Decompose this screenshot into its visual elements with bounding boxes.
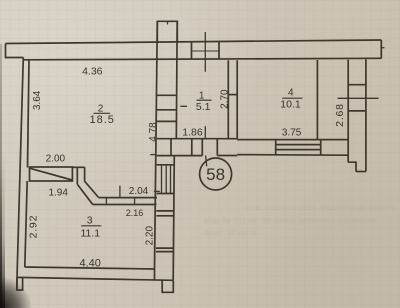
svg-text:2.20: 2.20 <box>145 226 156 246</box>
svg-text:4.78: 4.78 <box>148 122 159 142</box>
svg-text:4: 4 <box>288 88 294 99</box>
svg-text:4.40: 4.40 <box>79 258 100 270</box>
svg-text:2.16: 2.16 <box>126 208 144 218</box>
svg-text:2.00: 2.00 <box>46 153 66 164</box>
svg-text:3.64: 3.64 <box>32 90 43 110</box>
svg-text:3: 3 <box>87 215 93 227</box>
svg-text:5.1: 5.1 <box>196 101 211 113</box>
svg-text:3.75: 3.75 <box>282 128 302 139</box>
svg-text:2.70: 2.70 <box>219 89 230 109</box>
svg-text:11.1: 11.1 <box>80 228 100 240</box>
svg-text:1.94: 1.94 <box>48 187 68 198</box>
svg-text:1.86: 1.86 <box>182 127 203 139</box>
svg-text:2.04: 2.04 <box>129 186 149 197</box>
svg-text:18.5: 18.5 <box>89 114 114 126</box>
svg-text:10.1: 10.1 <box>280 99 301 111</box>
svg-text:58: 58 <box>206 165 225 184</box>
svg-text:2.68: 2.68 <box>334 103 346 127</box>
svg-text:4.36: 4.36 <box>82 66 103 78</box>
svg-text:2.92: 2.92 <box>27 215 39 239</box>
